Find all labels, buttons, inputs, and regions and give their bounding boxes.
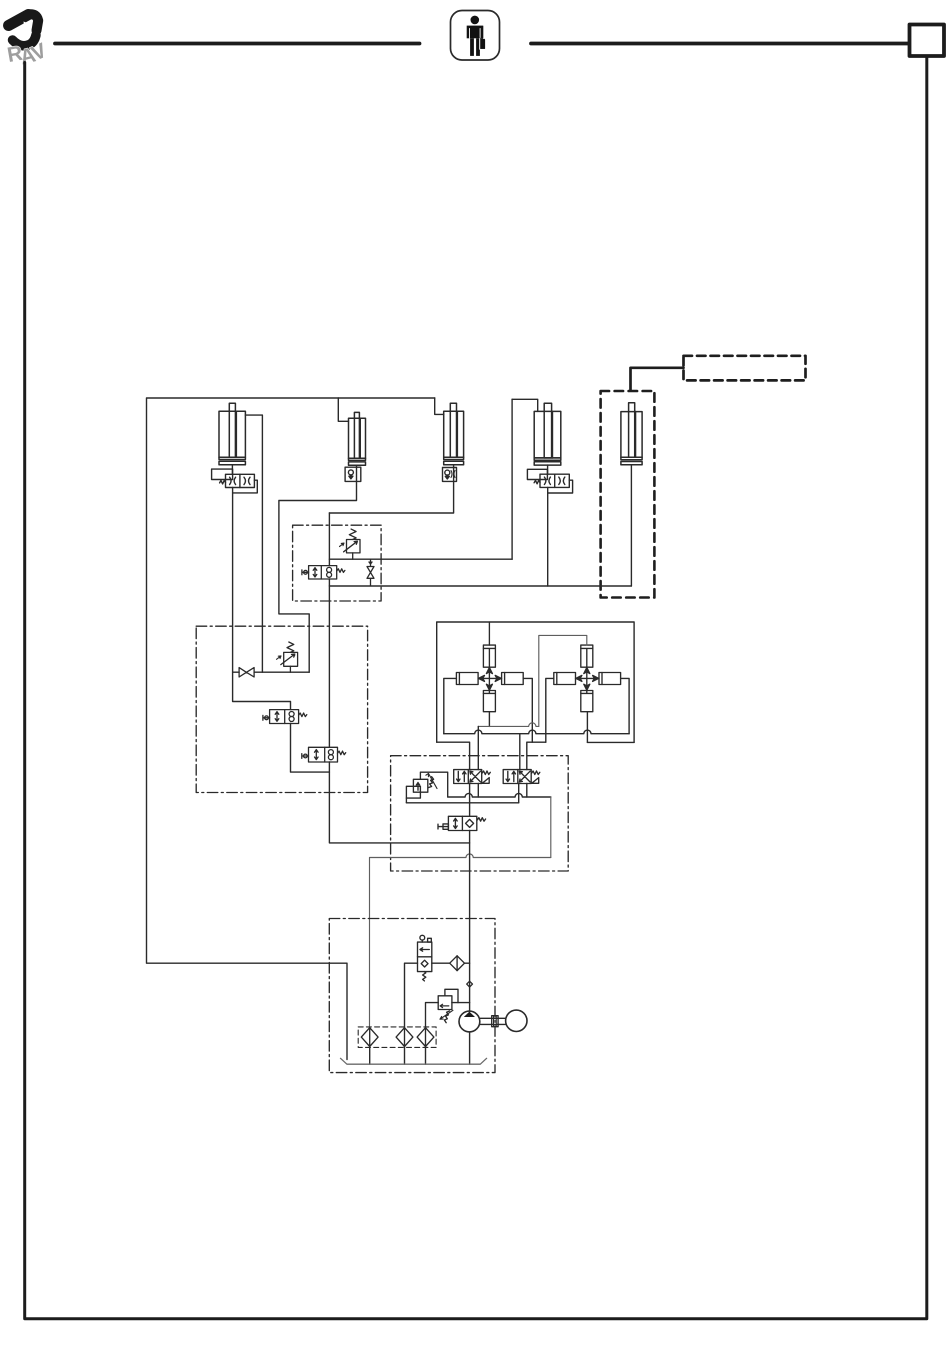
cylinder C4 — [534, 403, 561, 465]
wire: BR1 right port down — [523, 678, 532, 742]
wire: top supply rail and long left run to power unit — [147, 398, 435, 1060]
wire: cylinder 4 top feed — [512, 399, 538, 411]
wire: V3 output to manifold — [329, 481, 453, 513]
wire: bus2 tap to DV2 — [519, 734, 521, 770]
callout connector wire — [631, 368, 684, 391]
control valve block B4 (dash-dot) — [391, 756, 569, 871]
suction filter F4 — [417, 1028, 434, 1047]
dashed enclosure cylinder 5 — [601, 391, 655, 598]
wire: BR1 left port down to bus2 — [444, 678, 457, 733]
pump relief valve RV4 — [426, 989, 470, 1027]
top rule right segment — [531, 42, 909, 46]
wire: pump suction down — [469, 1032, 471, 1064]
hand pump valve SV5 — [418, 935, 432, 981]
cylinder C1 — [219, 403, 245, 465]
wire: BR1 bottom port to bus1 — [488, 712, 490, 727]
callout dashed box — [684, 356, 806, 381]
wire: tank header line1 with hops — [448, 793, 551, 797]
wire: cylinder 4 line down to manifold — [511, 399, 513, 559]
motor M1 — [506, 1010, 527, 1031]
suction filter F2 — [361, 1028, 378, 1047]
tank T1 — [341, 1058, 487, 1064]
solenoid valve SV2 in B2 — [263, 710, 307, 724]
directional valve DV2 — [503, 770, 540, 784]
pilot relief valve RV1 in B1 — [340, 529, 361, 559]
lock valve V1 under C1 — [212, 469, 258, 493]
corner registration square — [910, 25, 945, 57]
wire: bus1 left end down to DV1 — [477, 726, 479, 769]
wire: cylinder C1 bottom port — [231, 465, 233, 475]
top rule left segment — [55, 42, 420, 46]
cylinder C3 — [444, 403, 464, 465]
wire: BR2 left port down — [546, 678, 554, 742]
check bridge BR1 (left) — [456, 622, 523, 712]
wire: B3 bottom-left run to valve DV1 — [437, 742, 470, 769]
pressure filter F1 — [450, 956, 465, 971]
logo RAV — [6, 14, 51, 69]
unloader valve SV4 — [438, 816, 486, 830]
wire: V4 output down to line — [547, 487, 549, 586]
wire: V1 output to lowering block — [233, 488, 291, 710]
wire: cylinder C3 bottom port — [453, 465, 455, 468]
wire: B3 bottom-right run — [587, 741, 634, 743]
wire: branch to cylinder 3 — [435, 398, 444, 414]
wire: SV2 output — [291, 724, 330, 773]
pilot relief valve RV2 in B2 — [277, 642, 298, 672]
manifold box B1 (dash-dot) — [293, 525, 382, 601]
lowering block B2 (dash-dot) — [196, 626, 367, 792]
wire: bowtie cross line — [233, 671, 310, 673]
reopening block B3 frame — [437, 622, 634, 742]
operator icon box — [451, 11, 500, 61]
wire: DV1 ports down — [470, 784, 479, 817]
bus1 with hop — [478, 723, 539, 727]
check throttle CV1 in B1 — [367, 559, 374, 586]
suction filter group enclosure — [358, 1027, 436, 1048]
solenoid valve SV1 in B1 — [302, 566, 345, 579]
shut-off valve (bowtie) in B2 — [239, 668, 254, 677]
wire: cylinder C2 bottom port — [356, 465, 358, 467]
power unit box B5 (dash-dot) — [329, 919, 495, 1073]
motor shaft and coupling — [480, 1016, 506, 1027]
check bridge BR2 (right) — [554, 645, 621, 712]
wire: crossover link to DV2 — [527, 742, 546, 769]
wire: BR2 bottom port down — [586, 712, 588, 743]
wire: DV2 ports down — [519, 784, 527, 803]
wire: line1 right leg (thin) — [550, 797, 552, 858]
velocity fuse V3 under C3 — [443, 468, 457, 482]
wire: cylinder C5 line — [630, 465, 632, 586]
suction filter F3 — [396, 1028, 413, 1047]
wire: F1 to riser — [465, 962, 470, 964]
wire: distribution line to cylinder 4 — [329, 558, 512, 560]
wire: V2 output — [279, 481, 357, 672]
wire: BR2 top loop (thin) — [539, 635, 587, 726]
wire: SV5 to pressure filter — [432, 962, 450, 964]
wire: main riser below SV3 — [329, 762, 469, 843]
check valve CV2 on riser — [467, 981, 473, 987]
wire: filter drop tubes — [370, 1047, 426, 1065]
pump P1 — [459, 1011, 480, 1032]
velocity fuse V2 under C2 — [345, 467, 361, 481]
bus2 with hops — [444, 730, 629, 734]
wire: return run to suction filter (thin, hop) — [370, 854, 551, 1028]
directional valve DV1 — [454, 770, 491, 784]
wire: BR2 right port down to bus2 — [621, 678, 630, 733]
wire: branch to cylinder 2 — [338, 398, 348, 421]
wire: cylinder C4 bottom port — [547, 465, 549, 474]
operator person pictogram — [467, 16, 485, 56]
relief valve RV3 in B4 — [406, 772, 447, 803]
wire: main riser through B1 — [328, 513, 330, 747]
lock valve V4 under C4 — [527, 469, 572, 493]
wire: pilot line2 — [406, 802, 518, 804]
cylinder C2 — [349, 412, 366, 465]
cylinder C5 — [621, 403, 642, 465]
wire: cylinder C1 rod-side port — [245, 415, 262, 672]
wire: pump pressure riser — [469, 831, 471, 1012]
solenoid valve SV3 in B2 — [302, 747, 346, 762]
wire: distribution line to cylinders 4/5 valves — [329, 585, 631, 587]
wire: suction line to middle filter — [405, 963, 418, 1027]
